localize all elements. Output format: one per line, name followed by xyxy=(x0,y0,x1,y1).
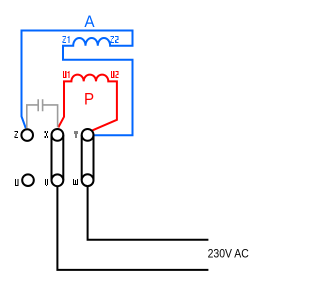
svg-text:A: A xyxy=(84,13,94,31)
svg-text:230V AC: 230V AC xyxy=(208,247,249,261)
svg-text:P: P xyxy=(84,91,94,109)
